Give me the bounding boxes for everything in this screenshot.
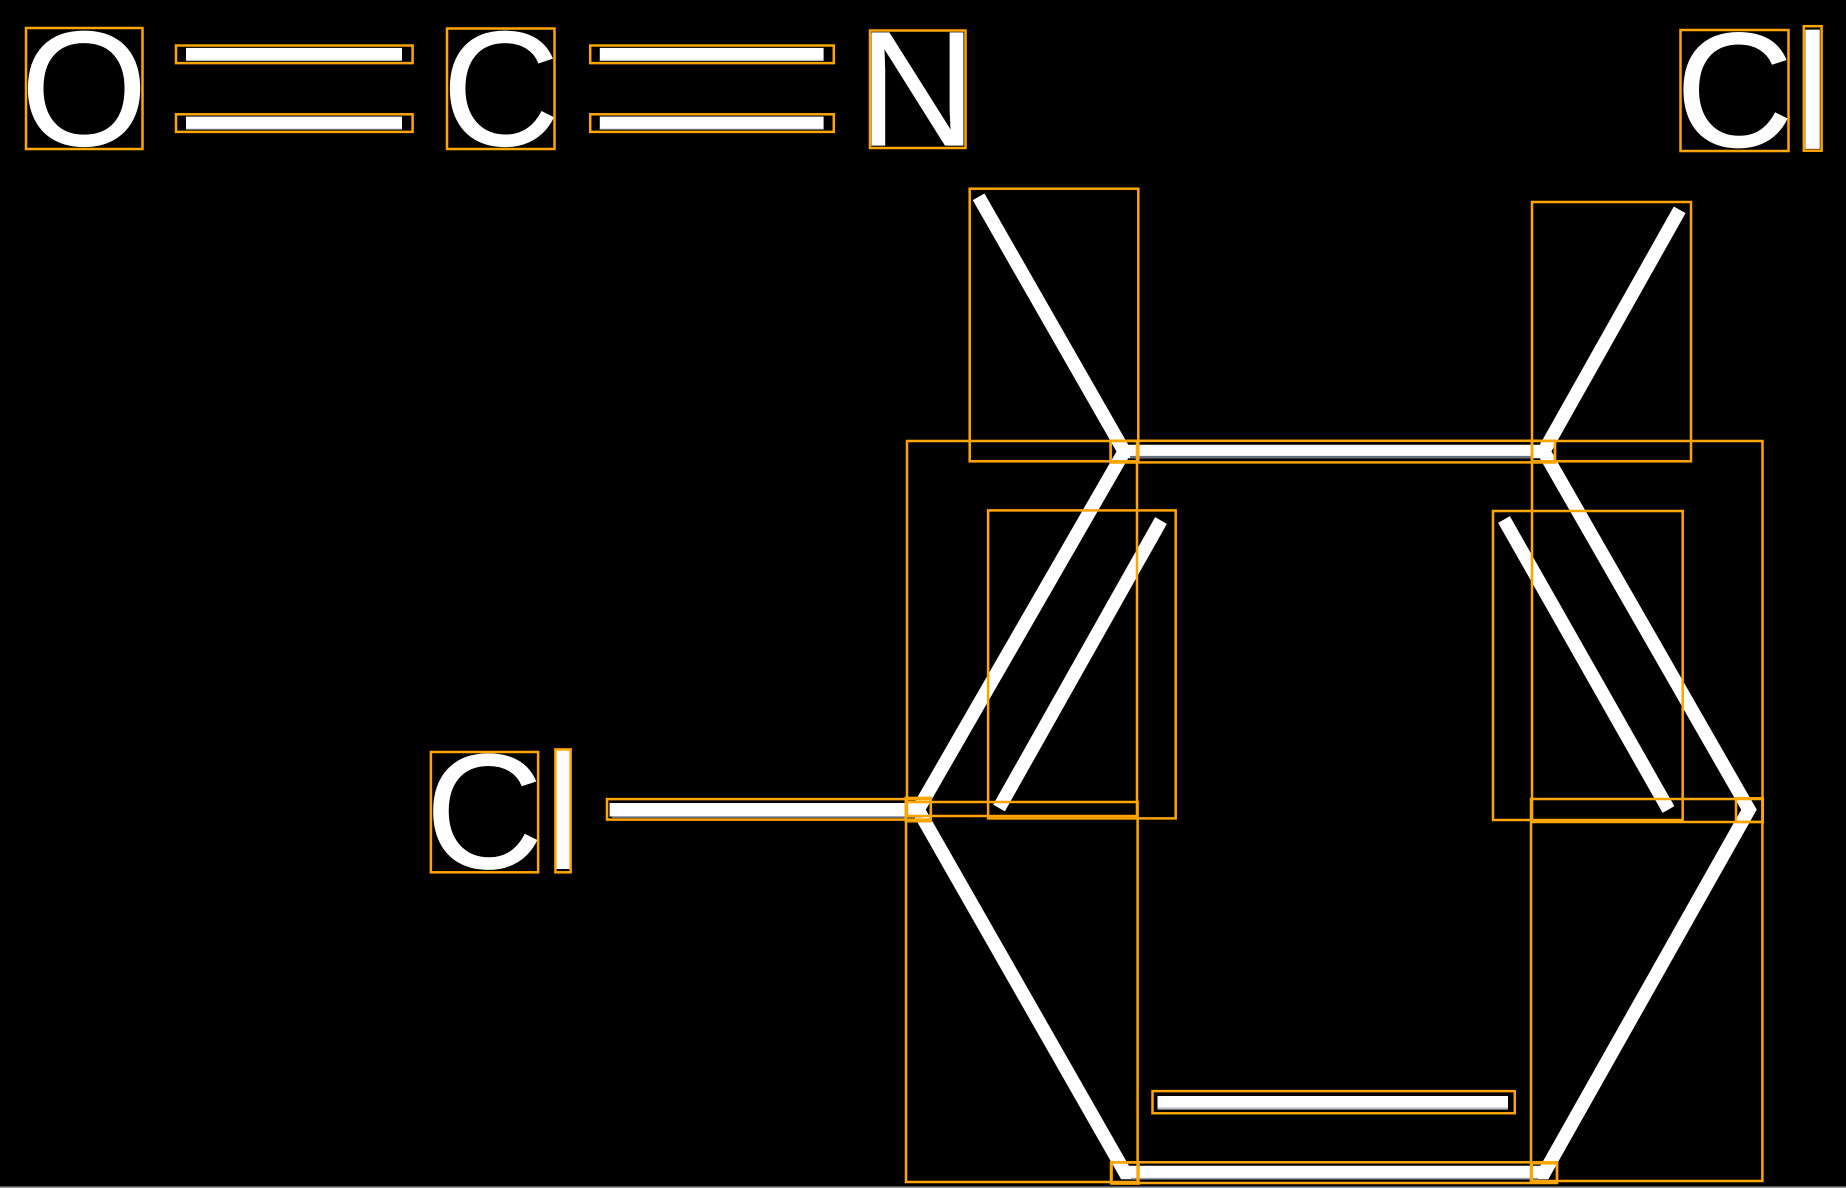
bottom edge strip dark part	[0, 1186, 1846, 1187]
svg-text:l: l	[1794, 0, 1831, 184]
svg-text:C: C	[1675, 0, 1794, 182]
shade under O=C lower line	[186, 128, 402, 129]
annotation box inner line B=C	[1493, 511, 1683, 820]
annotation box letter l of left Cl	[555, 749, 570, 872]
wire O=C double bond lower line	[186, 117, 402, 130]
svg-text:C: C	[442, 0, 561, 181]
annotation box bond Cl-F	[607, 799, 931, 820]
annotation box ring carbon C	[1736, 798, 1763, 822]
bottom edge strip light part	[0, 1187, 1846, 1188]
annotation box ring carbon E	[1112, 1163, 1139, 1184]
wire ring inner double line F=A	[999, 521, 1161, 809]
annotation box atom C of isocyanate	[447, 29, 555, 150]
svg-text:l: l	[545, 720, 582, 904]
annotation box ring bond C-D	[1531, 799, 1762, 1181]
annotation box atom O	[26, 28, 143, 149]
benzene ring bonds A-B-C-D-E-F	[918, 452, 1749, 1173]
annotation box inner line F=A	[988, 510, 1176, 818]
shade under O=C upper line	[186, 60, 402, 61]
shade under ring bond A-B	[1130, 456, 1532, 458]
annotation box inner line D=E	[1153, 1091, 1515, 1113]
annotation box letter C of top-right Cl	[1681, 30, 1789, 151]
annotation box ring bond F-A	[907, 441, 1137, 816]
wire ring inner double line D=E	[1158, 1096, 1509, 1110]
annotation box bond B-Cl	[1532, 202, 1691, 461]
wire bond N-A	[979, 197, 1125, 452]
annotation box ring carbon D	[1532, 1163, 1557, 1181]
annotation box ring carbon A	[1111, 441, 1139, 463]
annotation box ring bond D-E	[1111, 1162, 1557, 1183]
wire C=N double bond upper line	[600, 48, 824, 61]
annotation box C=N upper line	[590, 46, 834, 64]
annotation box ring carbon B	[1532, 441, 1555, 463]
annotation box C=N lower line	[590, 114, 834, 132]
annotation box ring carbon F	[906, 798, 931, 821]
svg-text:N: N	[858, 0, 977, 181]
shade under C=N lower line	[600, 128, 824, 129]
annotation box letter C of left Cl	[431, 752, 538, 872]
shade under C=N upper line	[600, 60, 824, 61]
annotation box letter l of top-right Cl	[1804, 26, 1822, 151]
shade under ring bond D-E	[1131, 1178, 1538, 1180]
wire ring inner double line B=C	[1504, 520, 1669, 810]
wire bond B-Cl	[1544, 210, 1680, 452]
shade under bond Cl-F	[612, 816, 922, 818]
annotation box ring bond A-B	[1111, 441, 1555, 463]
annotation box O=C lower line	[176, 114, 413, 132]
annotation box bond N-A	[970, 189, 1139, 462]
wire bond Cl-F	[610, 803, 926, 817]
shade under inner line D=E	[1158, 1108, 1509, 1110]
annotation box ring bond B-C	[1532, 441, 1763, 822]
annotation box atom N	[870, 31, 966, 149]
wire C=N double bond lower line	[600, 117, 824, 130]
annotation box ring bond E-F	[906, 802, 1138, 1182]
annotation box O=C upper line	[176, 46, 413, 64]
svg-text:C: C	[425, 719, 544, 903]
wire O=C double bond upper line	[186, 48, 402, 61]
